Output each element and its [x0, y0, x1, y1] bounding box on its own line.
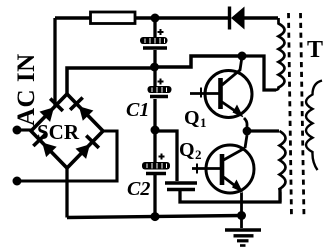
junction node top rail / C-top: [151, 14, 160, 23]
bridge diode lower-right: [76, 136, 99, 159]
bridge diode upper-right: [70, 98, 93, 121]
svg-text:AC IN: AC IN: [13, 53, 40, 126]
transformer core dashed line right: [301, 13, 305, 218]
wire bottom rail: [67, 216, 242, 218]
terminal AC input 2: [13, 177, 22, 186]
wire terminal 2 to bridge right corner: [17, 131, 117, 181]
wire node to lower primary top: [247, 129, 279, 132]
capacitor C2 (electrolytic): [142, 130, 170, 217]
wire terminal 1 to bridge left corner: [17, 128, 32, 131]
svg-text:Q: Q: [184, 107, 200, 129]
svg-text:2: 2: [195, 147, 202, 162]
wire Q1 emitter down to node: [244, 118, 247, 131]
svg-text:C1: C1: [126, 99, 149, 121]
transformer lower primary winding: [280, 131, 286, 202]
junction node C1/C2 midpoint: [151, 126, 160, 135]
svg-text:Q: Q: [179, 139, 195, 161]
resistor R1: [91, 12, 136, 24]
junction node ground: [237, 211, 246, 220]
bridge rectifier diamond: [31, 94, 103, 168]
junction node C2 bottom rail: [151, 212, 160, 221]
capacitor C1 (electrolytic): [148, 67, 172, 130]
capacitor C-top plus sign: [158, 29, 164, 35]
capacitor C3 (coupling, non-polarized): [165, 183, 197, 190]
bridge diode lower-left: [33, 134, 56, 157]
svg-text:SCR: SCR: [37, 120, 80, 144]
svg-text:C2: C2: [127, 178, 150, 200]
svg-text:1: 1: [200, 115, 207, 130]
wire midpoint to coupling capacitor: [155, 131, 177, 181]
terminal AC input 1: [13, 126, 22, 135]
capacitor C2 plus sign: [159, 154, 165, 160]
diode D1 on top rail (pointing left): [230, 7, 245, 30]
transformer upper primary winding: [276, 18, 285, 90]
ground: [225, 216, 261, 246]
bridge diode upper-left: [40, 99, 63, 122]
transformer secondary winding: [306, 81, 322, 171]
wire coupling capacitor to lower primary bottom: [180, 189, 280, 202]
wire stepped rail junction to Q1 collector node: [154, 56, 242, 67]
wire top rail right segment to transformer: [243, 16, 278, 20]
wire rail from bridge top corner to junction: [67, 68, 154, 94]
capacitor C1 plus sign: [158, 79, 164, 85]
wire Q2 emitter down to bottom rail: [240, 193, 243, 216]
wire top rail left segment: [55, 16, 90, 20]
junction node Q1 collector: [238, 52, 247, 61]
wire top rail middle segment: [134, 16, 230, 20]
transistor Q2: [192, 145, 254, 193]
junction node Q1 emitter / Q2 collector: [243, 127, 252, 136]
wire collector node to upper primary bottom: [242, 56, 276, 90]
capacitor C-top (electrolytic): [140, 18, 168, 67]
svg-text:T: T: [307, 37, 323, 63]
junction node mid rail: [150, 63, 159, 72]
wire Q1 collector up to node: [240, 56, 243, 60]
wire bridge bottom corner to bottom rail: [65, 168, 68, 218]
transistor Q1: [190, 60, 252, 118]
wire left vertical drop from top rail to bridge diode: [53, 18, 56, 108]
transformer core dashed line left: [289, 13, 292, 218]
wire Q2 collector up to node: [245, 135, 247, 148]
